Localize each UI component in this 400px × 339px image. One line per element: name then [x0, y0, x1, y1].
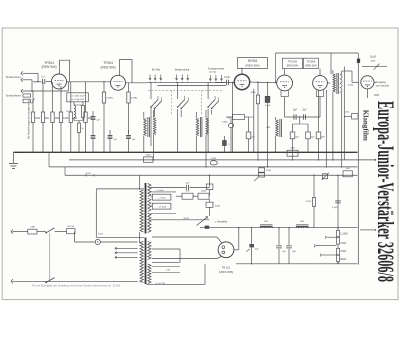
svg-text:1,4kΩ: 1,4kΩ	[348, 85, 354, 87]
svg-text:TF504: TF504	[103, 61, 113, 65]
svg-text:0,3MΩ: 0,3MΩ	[106, 98, 113, 100]
svg-text:U = 4V 2A: U = 4V 2A	[155, 282, 165, 285]
svg-text:220V~: 220V~	[86, 173, 93, 175]
svg-text:bei 0,5μF 806: bei 0,5μF 806	[71, 99, 85, 101]
svg-text:Die Abschirmungen der Leitunge: Die Abschirmungen der Leitungen erden	[27, 100, 31, 139]
svg-text:80kΩ: 80kΩ	[340, 258, 346, 261]
svg-text:47kΩ: 47kΩ	[211, 158, 217, 160]
svg-text:30H: 30H	[264, 221, 268, 223]
svg-text:Europa-Junior-Verstärker 32606: Europa-Junior-Verstärker 32606/8	[373, 101, 398, 282]
svg-text:± 4 Watt: ± 4 Watt	[156, 189, 164, 192]
svg-text:(REN 904): (REN 904)	[305, 65, 316, 68]
svg-text:Tonabnehmer: Tonabnehmer	[6, 76, 21, 79]
svg-text:10H: 10H	[266, 127, 270, 129]
svg-text:0,1μF: 0,1μF	[332, 207, 338, 209]
svg-text:(URDX 2505): (URDX 2505)	[219, 271, 234, 274]
svg-text:0,8A: 0,8A	[30, 225, 35, 228]
svg-text:(REN 904): (REN 904)	[245, 64, 259, 68]
svg-text:Besprechung: Besprechung	[175, 68, 190, 71]
svg-text:40kΩ: 40kΩ	[251, 92, 256, 94]
svg-text:Tonabnehmer: Tonabnehmer	[6, 95, 21, 98]
svg-text:100Ω: 100Ω	[201, 191, 207, 193]
svg-text:+ 7 Watt: + 7 Watt	[158, 196, 166, 199]
svg-text:1kΩ: 1kΩ	[186, 191, 190, 193]
svg-text:220V: 220V	[98, 234, 103, 236]
svg-text:Ausgang: Ausgang	[376, 81, 386, 84]
svg-text:bei 2x506 22μF: bei 2x506 22μF	[70, 95, 85, 97]
svg-text:6,3V: 6,3V	[166, 269, 171, 271]
svg-text:30H: 30H	[300, 221, 304, 223]
svg-text:TF1504: TF1504	[306, 59, 315, 63]
svg-text:2x2μF: 2x2μF	[370, 57, 377, 59]
svg-text:TF504: TF504	[44, 61, 54, 65]
svg-text:4kΩ: 4kΩ	[346, 168, 350, 170]
svg-text:0,3MΩ: 0,3MΩ	[131, 98, 138, 100]
svg-text:Für die Richtigkeit der Schalt: Für die Richtigkeit der Schaltung wird k…	[32, 283, 121, 287]
svg-text:(V 72): (V 72)	[209, 71, 216, 74]
svg-text:NF504: NF504	[248, 59, 258, 63]
svg-text:+ 15 Watt: + 15 Watt	[157, 205, 166, 208]
svg-text:1MΩ: 1MΩ	[35, 118, 40, 120]
svg-text:TB 101: TB 101	[222, 266, 231, 270]
svg-text:zum Lautspr.: zum Lautspr.	[376, 85, 390, 88]
svg-text:0,1μF: 0,1μF	[224, 77, 231, 79]
svg-text:TF1504: TF1504	[288, 59, 297, 63]
svg-text:1,1MΩ: 1,1MΩ	[340, 233, 348, 236]
svg-text:0,2M: 0,2M	[63, 118, 68, 120]
svg-text:Tonangenerator: Tonangenerator	[208, 67, 225, 70]
svg-text:2μF: 2μF	[302, 110, 307, 112]
svg-text:250Ω: 250Ω	[266, 170, 271, 172]
svg-text:40kΩ: 40kΩ	[215, 205, 221, 207]
svg-text:180Ω: 180Ω	[146, 154, 152, 156]
svg-text:1kΩ: 1kΩ	[345, 111, 349, 113]
svg-text:(REN 904): (REN 904)	[287, 65, 298, 68]
svg-text:Bel Tast: Bel Tast	[152, 68, 161, 71]
svg-text:2μF: 2μF	[293, 110, 298, 112]
svg-text:(REN 904): (REN 904)	[100, 66, 115, 70]
svg-text:1,5MΩ: 1,5MΩ	[221, 121, 228, 123]
svg-text:(REN 904): (REN 904)	[41, 65, 56, 69]
svg-text:450V: 450V	[370, 60, 376, 62]
svg-text:z. Verstärker: z. Verstärker	[215, 221, 228, 224]
svg-text:0,1μF: 0,1μF	[265, 105, 271, 107]
svg-text:Klangfilm: Klangfilm	[361, 110, 369, 141]
svg-text:47kΩ: 47kΩ	[340, 242, 346, 245]
svg-text:47kΩ: 47kΩ	[340, 250, 346, 253]
svg-text:47kΩ: 47kΩ	[306, 201, 311, 203]
svg-text:NS 5A: NS 5A	[68, 225, 75, 228]
svg-text:1μF: 1μF	[185, 182, 189, 184]
